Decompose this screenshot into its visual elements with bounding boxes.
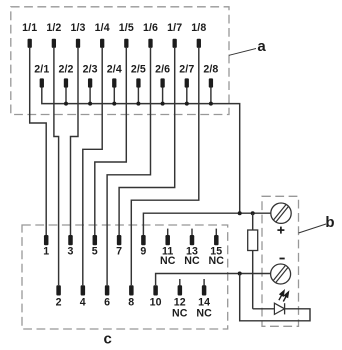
terminal 1/2 (46, 22, 61, 48)
svg-text:2/6: 2/6 (155, 63, 170, 75)
box c (dashed enclosure, bottom) (22, 225, 228, 329)
svg-text:1/1: 1/1 (22, 22, 37, 34)
pin 10 (150, 285, 162, 308)
pin 7 (116, 235, 122, 257)
wire LED cathode to loop (240, 274, 310, 321)
wire 1/5 to pin 5 (95, 48, 127, 235)
plus sign (277, 227, 284, 234)
wire 1/4 to pin 4 (83, 48, 102, 285)
svg-text:1/2: 1/2 (46, 22, 61, 34)
svg-text:2/3: 2/3 (83, 63, 98, 75)
svg-text:a: a (257, 38, 266, 55)
pin 14 (196, 279, 212, 319)
wire 2/3 drop to bus (89, 87, 91, 104)
wire LED anode (253, 308, 275, 310)
box b (dashed enclosure, right) (262, 196, 299, 326)
wire 2/8 drop to bus (210, 87, 212, 104)
svg-text:2/7: 2/7 (179, 63, 194, 75)
pin 6 (104, 285, 110, 308)
label b leader (299, 224, 327, 233)
terminal 1/6 (143, 22, 158, 48)
terminal 1/4 (95, 22, 110, 48)
wire 2/2 drop to bus (65, 87, 67, 104)
terminal 1/5 (119, 22, 134, 48)
svg-text:2/2: 2/2 (58, 63, 73, 75)
pin 2 (56, 285, 62, 308)
terminal 2/2 (58, 63, 73, 87)
junction 2/7-bus (185, 102, 189, 106)
wire 1/3 to pin 3 (71, 48, 79, 235)
wire 2/5 drop to bus (137, 87, 139, 104)
wire pin 9 to + terminal (143, 213, 270, 235)
label a leader (229, 49, 256, 56)
svg-text:7: 7 (116, 245, 122, 257)
svg-text:5: 5 (92, 245, 98, 257)
svg-text:1: 1 (43, 245, 49, 257)
wire 1/1 to pin 1 (30, 48, 47, 235)
svg-text:1/8: 1/8 (191, 22, 206, 34)
junction 2/2-bus (64, 102, 68, 106)
pin 11 (160, 229, 176, 267)
junction 2/4-bus (112, 102, 116, 106)
wire 2/x bus (42, 87, 240, 213)
pin 13 (184, 229, 200, 267)
svg-text:2/4: 2/4 (107, 63, 122, 75)
svg-text:9: 9 (140, 245, 146, 257)
terminal 2/1 (34, 63, 49, 87)
LED D1 (274, 303, 284, 314)
junction -/LED loop (238, 272, 242, 276)
svg-text:8: 8 (128, 297, 134, 309)
terminal 1/1 (22, 22, 37, 48)
svg-text:2/5: 2/5 (131, 63, 146, 75)
svg-text:NC: NC (172, 307, 188, 319)
box a (dashed enclosure, top) (11, 7, 229, 115)
svg-text:10: 10 (150, 297, 162, 309)
wire 1/7 to pin 7 (119, 48, 175, 235)
wire 1/2 to pin 2 (54, 48, 59, 285)
screw terminal - (271, 264, 291, 284)
pin 8 (128, 285, 134, 308)
wire 2/7 drop to bus (186, 87, 188, 104)
svg-text:2/1: 2/1 (34, 63, 49, 75)
pin 3 (68, 235, 74, 257)
pin 4 (80, 285, 86, 308)
terminal 2/8 (203, 63, 218, 87)
pin 1 (43, 235, 49, 257)
svg-text:1/4: 1/4 (95, 22, 110, 34)
pin 9 (140, 235, 146, 257)
svg-text:NC: NC (184, 255, 200, 267)
junction 2/6-bus (161, 102, 165, 106)
wire 1/8 to pin 8 (131, 48, 199, 285)
svg-text:6: 6 (104, 297, 110, 309)
wire 1/6 to pin 6 (107, 48, 150, 285)
LED arrows (279, 291, 289, 302)
resistor lead top (252, 213, 254, 230)
svg-text:1/6: 1/6 (143, 22, 158, 34)
svg-text:2/8: 2/8 (203, 63, 218, 75)
wire pin 10 to - terminal (156, 274, 271, 286)
junction 2/3-bus (88, 102, 92, 106)
terminal 2/4 (107, 63, 122, 87)
pin 5 (92, 235, 98, 257)
resistor lead bottom (252, 251, 254, 309)
svg-text:3: 3 (68, 245, 74, 257)
terminal 1/3 (70, 22, 85, 48)
terminal 2/5 (131, 63, 146, 87)
minus sign (280, 258, 285, 260)
svg-text:b: b (325, 214, 334, 231)
junction 2/8-bus (209, 102, 213, 106)
resistor (248, 230, 258, 251)
svg-text:NC: NC (209, 255, 225, 267)
pin 12 (172, 279, 188, 319)
screw terminal + (271, 203, 291, 223)
svg-text:4: 4 (80, 297, 86, 309)
wire 2/6 drop to bus (162, 87, 164, 104)
svg-text:NC: NC (160, 255, 176, 267)
terminal 2/7 (179, 63, 194, 87)
pin 15 (209, 229, 225, 267)
terminal 1/8 (191, 22, 206, 48)
wire 2/4 drop to bus (113, 87, 115, 104)
terminal 1/7 (167, 22, 182, 48)
junction bus/+ wire (238, 211, 242, 215)
svg-text:c: c (104, 331, 112, 348)
terminal 2/6 (155, 63, 170, 87)
svg-text:NC: NC (196, 307, 212, 319)
svg-text:2: 2 (56, 297, 62, 309)
junction resistor/+ wire (251, 211, 255, 215)
svg-text:1/7: 1/7 (167, 22, 182, 34)
svg-text:1/3: 1/3 (70, 22, 85, 34)
terminal 2/3 (83, 63, 98, 87)
junction 2/5-bus (136, 102, 140, 106)
svg-text:1/5: 1/5 (119, 22, 134, 34)
